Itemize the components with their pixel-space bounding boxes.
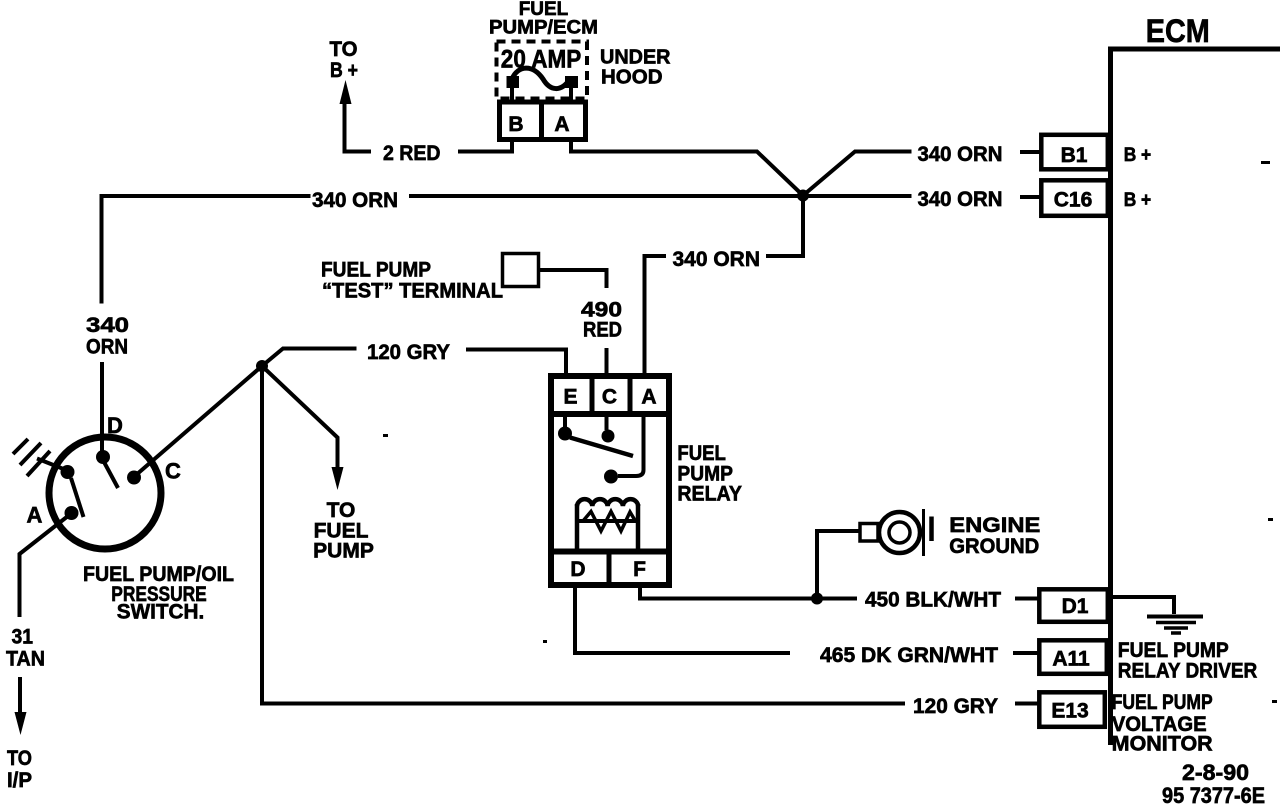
terminal C16	[1041, 180, 1108, 216]
svg-text:RELAY: RELAY	[677, 483, 742, 506]
svg-text:A: A	[554, 113, 569, 136]
wire junction to B1	[803, 152, 912, 196]
label B+ (C16)	[1124, 190, 1152, 211]
relay top row divider line	[548, 411, 672, 417]
svg-text:E13: E13	[1051, 700, 1088, 723]
svg-text:B1: B1	[1061, 144, 1088, 167]
label 465 DK GRN/WHT	[820, 644, 998, 667]
svg-text:ECM: ECM	[1146, 13, 1210, 49]
svg-text:RELAY DRIVER: RELAY DRIVER	[1118, 660, 1258, 683]
label 20 AMP	[501, 46, 582, 74]
label TO FUEL PUMP	[313, 499, 374, 563]
label ECM	[1146, 13, 1210, 49]
scan speck	[1272, 700, 1277, 703]
svg-text:B +: B +	[330, 59, 358, 82]
svg-text:PUMP: PUMP	[313, 540, 374, 563]
label UNDER HOOD	[600, 47, 671, 89]
label 340 ORN (long line)	[312, 189, 398, 212]
label doc number 95 7377-6E	[1162, 783, 1265, 806]
scan speck	[1261, 161, 1270, 164]
label 31 TAN	[6, 626, 45, 671]
svg-text:MONITOR: MONITOR	[1112, 733, 1213, 756]
svg-text:SWITCH.: SWITCH.	[117, 601, 205, 624]
test terminal box	[503, 254, 539, 287]
svg-text:B: B	[508, 113, 523, 136]
label 450 BLK/WHT	[865, 589, 1001, 612]
label 120 GRY (upper)	[367, 341, 450, 364]
svg-text:340 ORN: 340 ORN	[918, 143, 1003, 166]
svg-text:D1: D1	[1062, 595, 1089, 618]
svg-text:D: D	[570, 558, 585, 581]
wire link to C16	[1020, 195, 1041, 199]
wire 120 GRY to relay E	[466, 350, 566, 374]
wire mid label to relay A	[645, 256, 667, 373]
relay pin D label	[570, 558, 585, 581]
switch terminal D dot	[96, 450, 110, 464]
terminal A11	[1039, 640, 1107, 674]
scan speck	[543, 640, 547, 643]
wire test terminal to 490 RED	[540, 270, 607, 288]
svg-text:ENGINE: ENGINE	[949, 514, 1040, 537]
wire relay D to 465	[575, 588, 790, 653]
relay coil	[577, 499, 638, 548]
terminal D1	[1039, 589, 1108, 622]
wire 340 ORN down to switch D	[100, 362, 104, 456]
label C (switch)	[165, 459, 181, 484]
relay pin F label	[633, 558, 646, 581]
arrow to I/P	[15, 712, 27, 735]
label date 2-8-90	[1182, 760, 1249, 785]
svg-text:C16: C16	[1054, 189, 1093, 212]
svg-text:ORN: ORN	[86, 336, 128, 359]
svg-text:C: C	[165, 459, 181, 484]
svg-text:UNDER: UNDER	[600, 47, 671, 69]
wire 2 RED to fuse B pin	[458, 142, 512, 152]
label FUEL PUMP RELAY DRIVER	[1118, 639, 1258, 683]
case ground hatch	[13, 439, 50, 476]
relay pin E label	[563, 386, 577, 409]
junction dot C	[811, 593, 823, 605]
wire link to E13	[1015, 702, 1041, 706]
svg-text:20 AMP: 20 AMP	[501, 46, 582, 74]
label FUEL PUMP/OIL PRESSURE SWITCH	[83, 563, 234, 624]
svg-text:95 7377-6E: 95 7377-6E	[1162, 783, 1265, 806]
label TO I/P	[7, 747, 32, 792]
svg-text:D: D	[107, 413, 123, 438]
label 120 GRY (bottom)	[913, 695, 998, 718]
switch case dot	[61, 465, 75, 479]
label FUEL PUMP TEST TERMINAL	[321, 259, 503, 303]
wire to engine ground	[817, 531, 860, 599]
svg-text:TO: TO	[330, 38, 358, 61]
terminal B1	[1041, 135, 1108, 170]
wire junction B down to bottom 120 GRY	[262, 366, 905, 704]
relay bottom row divider line	[548, 549, 672, 555]
label TO B+	[330, 38, 359, 82]
relay E contact	[558, 417, 572, 441]
svg-text:2-8-90: 2-8-90	[1182, 760, 1249, 785]
relay pin A label	[641, 386, 656, 409]
label A (switch)	[27, 503, 43, 528]
svg-text:340 ORN: 340 ORN	[918, 188, 1003, 211]
label 340 ORN (mid)	[673, 248, 761, 271]
svg-text:A: A	[641, 386, 656, 409]
label 340 ORN (left col)	[86, 314, 129, 359]
case ground connector	[37, 459, 66, 471]
wire relay F to 450 BLK/WHT	[640, 588, 857, 599]
svg-text:F: F	[633, 558, 646, 581]
svg-text:450 BLK/WHT: 450 BLK/WHT	[865, 589, 1001, 612]
wire long 340 ORN right to C16	[409, 194, 912, 198]
relay resistor zigzag	[583, 512, 636, 532]
wire 490 RED to relay C	[605, 348, 609, 373]
wire long 340 ORN left corner down to switch D	[102, 196, 311, 304]
pin A label	[554, 113, 569, 136]
arrow to fuel pump	[332, 467, 344, 490]
wire link to A11	[1013, 651, 1041, 655]
switch arm from D	[104, 462, 118, 488]
label 490 RED	[581, 299, 622, 342]
wire link to D1	[1015, 597, 1041, 601]
relay pin C label	[602, 386, 617, 409]
chassis ground symbol	[1147, 617, 1203, 634]
arrow to B+	[340, 80, 352, 104]
svg-text:A11: A11	[1052, 648, 1090, 671]
wire A switch to 31 TAN	[20, 516, 69, 617]
fuse connector B A box	[500, 102, 586, 140]
wire from fuse A down and right to junction	[571, 142, 803, 196]
svg-text:31: 31	[12, 626, 34, 649]
relay switch arm	[570, 438, 633, 457]
svg-text:C: C	[602, 386, 617, 409]
switch terminal C dot	[127, 471, 141, 485]
switch circle FUEL PUMP/OIL PRESSURE SWITCH	[49, 437, 161, 549]
junction dot A	[797, 190, 809, 202]
svg-text:“TEST” TERMINAL: “TEST” TERMINAL	[322, 280, 503, 303]
scan speck	[383, 434, 388, 437]
svg-text:HOOD: HOOD	[601, 66, 663, 88]
pin B label	[508, 113, 523, 136]
label FUEL PUMP VOLTAGE MONITOR	[1112, 691, 1213, 756]
fuse 20 AMP dashed box	[497, 42, 588, 99]
label FUEL PUMP/ECM	[489, 0, 598, 39]
svg-text:465 DK GRN/WHT: 465 DK GRN/WHT	[820, 644, 998, 667]
svg-text:120 GRY: 120 GRY	[367, 341, 450, 364]
svg-text:B +: B +	[1124, 190, 1152, 211]
relay top cell dividers	[592, 376, 630, 411]
label 2 RED	[383, 142, 441, 165]
wire C to junction B diagonal	[136, 366, 262, 475]
svg-text:FUEL PUMP: FUEL PUMP	[321, 259, 431, 282]
svg-text:RED: RED	[583, 319, 622, 342]
wire 2 RED from TO B+ corner	[345, 100, 372, 152]
label FUEL PUMP RELAY	[677, 442, 742, 506]
wire junction down to 340 ORN mid label	[766, 196, 803, 257]
svg-text:PUMP/ECM: PUMP/ECM	[489, 18, 598, 39]
wire link to B1	[1020, 150, 1041, 154]
svg-text:A: A	[27, 503, 43, 528]
terminal E13	[1039, 692, 1105, 727]
svg-text:FUEL PUMP: FUEL PUMP	[1112, 691, 1213, 714]
wire 31 TAN arrow line	[18, 677, 22, 716]
svg-text:340: 340	[86, 314, 129, 337]
switch arm to A	[71, 478, 84, 517]
label 340 ORN (C16 row)	[918, 188, 1003, 211]
svg-text:2 RED: 2 RED	[383, 142, 441, 165]
relay outer box	[551, 376, 669, 585]
svg-text:E: E	[563, 386, 577, 409]
svg-text:GROUND: GROUND	[949, 535, 1039, 558]
svg-text:TAN: TAN	[6, 648, 45, 671]
label 340 ORN (B1 row)	[918, 143, 1003, 166]
engine ground ring terminal	[860, 509, 932, 556]
label B+ (B1)	[1124, 145, 1152, 166]
svg-text:340 ORN: 340 ORN	[312, 189, 398, 212]
wire junction B to fuel pump arrow	[262, 366, 338, 471]
fuse element F1	[507, 68, 579, 100]
scan speck	[1268, 518, 1273, 521]
relay bottom cell divider	[607, 554, 612, 585]
svg-text:340 ORN: 340 ORN	[673, 248, 761, 271]
wire junction B to 120 GRY	[262, 349, 357, 367]
label ENGINE GROUND	[949, 514, 1040, 558]
svg-text:B +: B +	[1124, 145, 1152, 166]
switch terminal A dot	[65, 506, 79, 520]
svg-text:120 GRY: 120 GRY	[913, 695, 998, 718]
wire ECM to chassis ground	[1112, 597, 1174, 614]
svg-text:TO: TO	[7, 747, 32, 770]
junction dot B	[256, 360, 268, 372]
label D (switch)	[107, 413, 123, 438]
svg-text:I/P: I/P	[7, 769, 32, 792]
relay C contact	[602, 417, 615, 443]
relay A contact wire	[604, 417, 644, 484]
ECM boundary line	[1111, 49, 1280, 745]
